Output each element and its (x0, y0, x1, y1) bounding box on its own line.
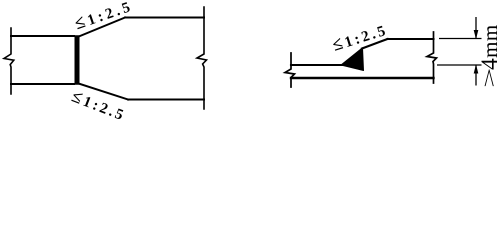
arrowhead pointing up (474, 64, 479, 73)
top taper slope of thick plate (80, 18, 125, 37)
thick plate top surface (388, 38, 434, 40)
break line left end of thin plate (4, 28, 14, 94)
weld seam (thick bar) (75, 35, 80, 85)
thin plate top surface (291, 64, 362, 66)
svg-text:≤1:2.5: ≤1:2.5 (72, 0, 136, 33)
extension line at thin plate top level (437, 64, 482, 66)
break line right end of thick plate (197, 7, 207, 109)
dimension line lower segment (475, 65, 477, 86)
bottom taper slope of thick plate (80, 84, 128, 100)
dimension: step height >4mm (437, 17, 482, 86)
thin plate top surface (11, 35, 74, 37)
dimension line upper segment (475, 17, 477, 39)
left figure: butt joint of unequal-thickness plates (double-sided taper) (4, 7, 207, 109)
thick plate bottom surface (128, 99, 204, 101)
thin plate bottom surface (11, 83, 74, 85)
break line right end of thick plate (427, 32, 437, 83)
slope line above weld (362, 39, 388, 49)
right figure: butt joint with weld built-up taper (285, 32, 437, 87)
svg-text:4mm: 4mm (477, 24, 500, 70)
thick plate top surface (125, 17, 204, 19)
weld bead (filled triangle) (341, 48, 364, 71)
extension line at thick plate top level (439, 38, 482, 40)
common bottom surface (291, 77, 434, 79)
break line left end of thin plate (285, 53, 295, 87)
arrowhead pointing down (474, 30, 479, 39)
